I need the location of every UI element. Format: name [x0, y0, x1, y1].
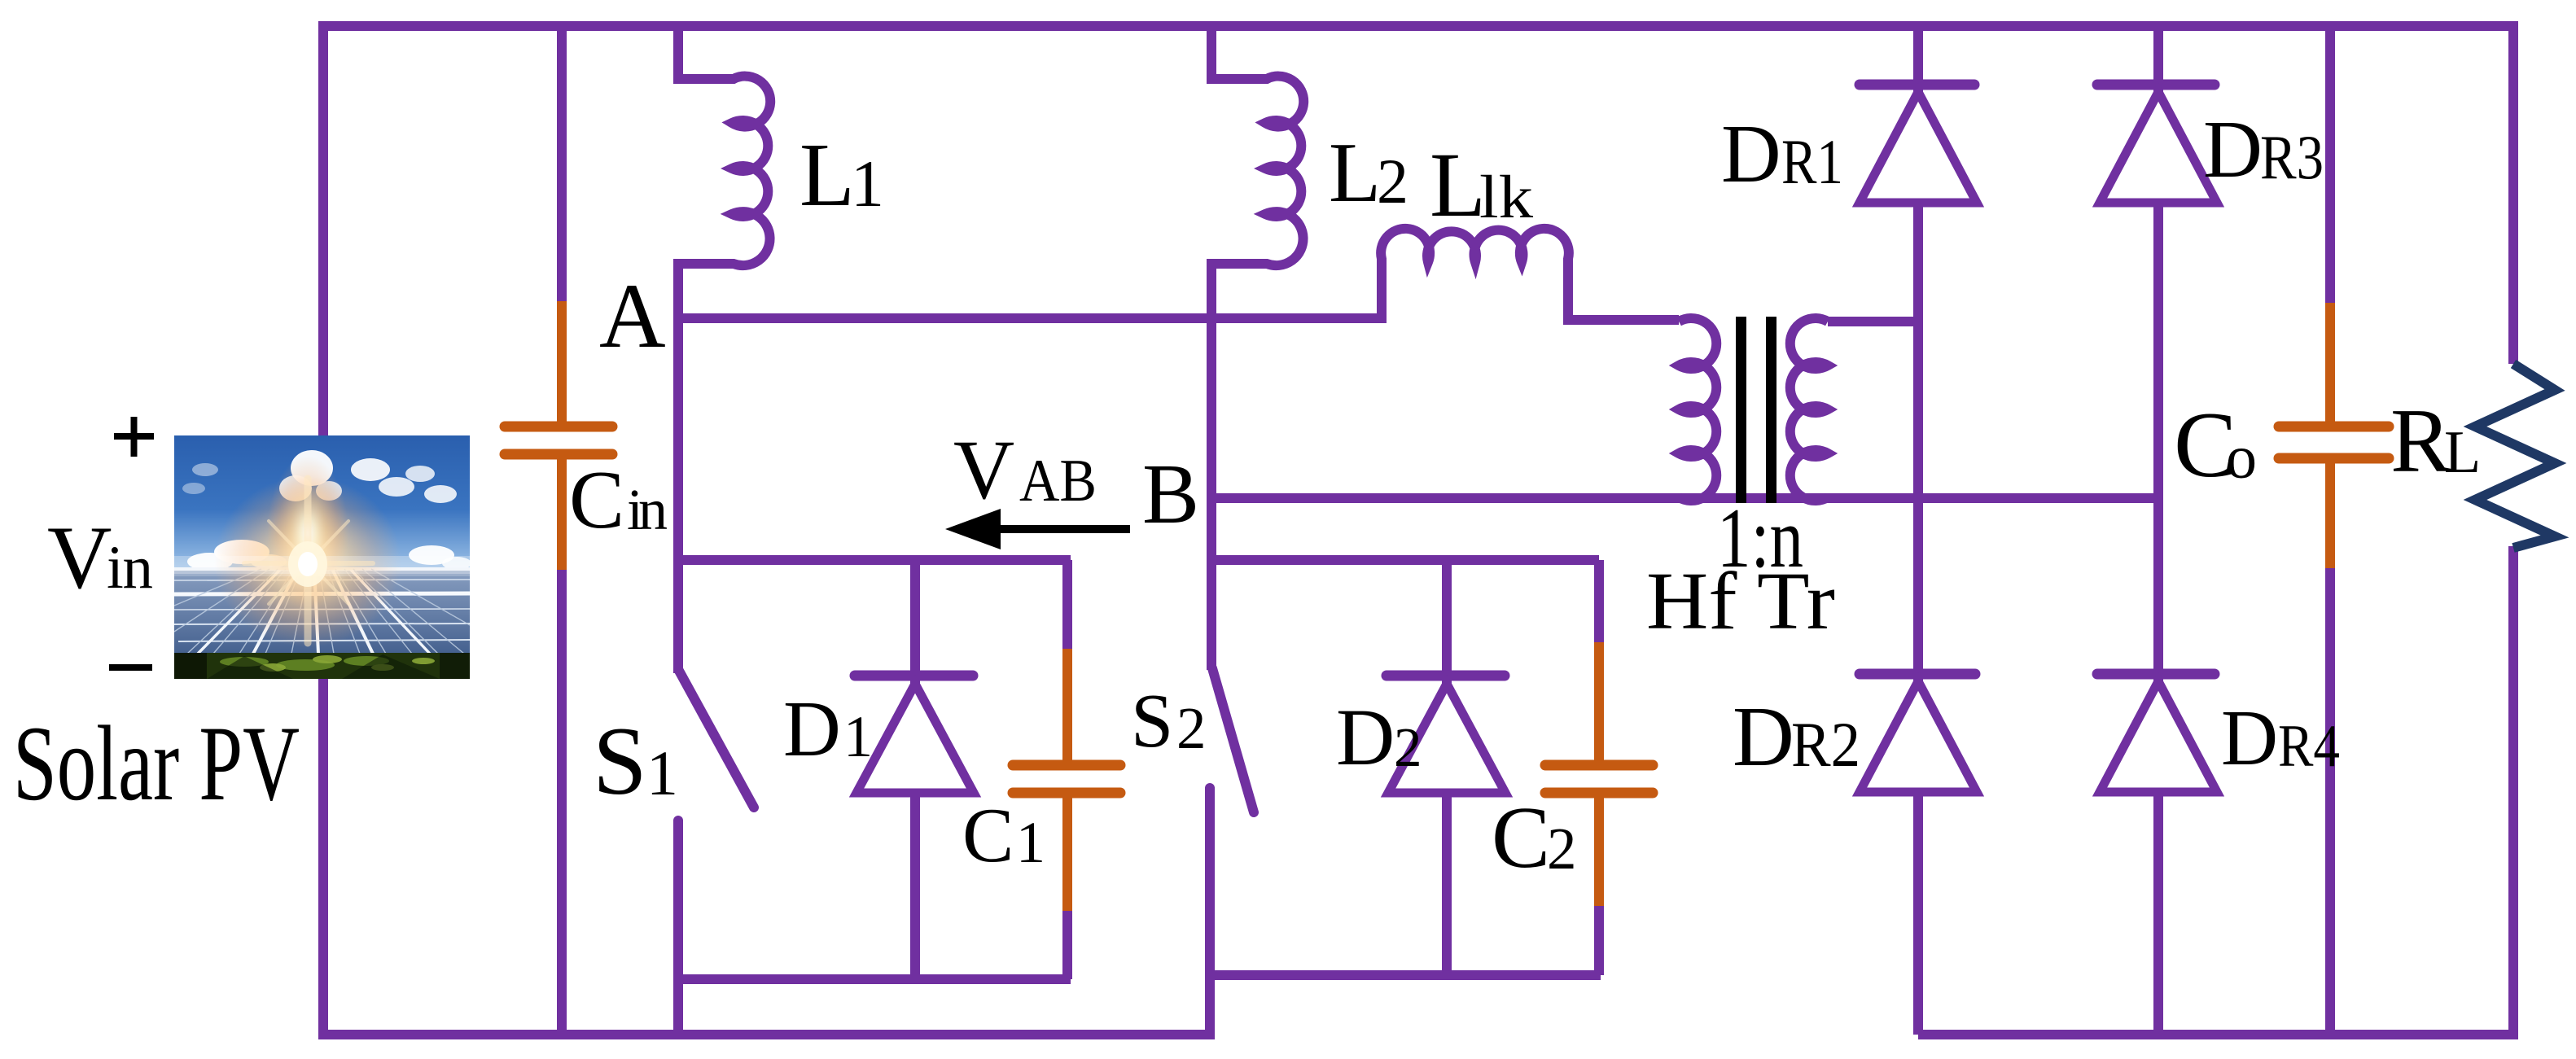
svg-text:Solar PV: Solar PV	[13, 703, 300, 823]
svg-text:1: 1	[646, 737, 678, 808]
svg-text:L: L	[800, 125, 855, 225]
svg-text:2: 2	[1377, 146, 1408, 217]
svg-text:D: D	[1733, 689, 1794, 784]
svg-text:D: D	[1336, 692, 1395, 782]
svg-text:L: L	[1329, 125, 1381, 220]
svg-text:in: in	[107, 534, 153, 602]
svg-text:1: 1	[851, 147, 884, 221]
svg-text:L: L	[2444, 419, 2481, 486]
svg-text:B: B	[1142, 446, 1199, 541]
svg-text:R1: R1	[1781, 126, 1843, 197]
svg-text:S: S	[1131, 679, 1173, 764]
svg-text:2: 2	[1176, 695, 1207, 761]
svg-text:1: 1	[843, 704, 873, 769]
svg-text:C: C	[1492, 790, 1550, 886]
svg-text:1: 1	[1016, 810, 1045, 875]
svg-text:D: D	[2203, 103, 2263, 195]
svg-text:C: C	[962, 792, 1014, 878]
svg-text:D: D	[1721, 108, 1781, 200]
svg-text:2: 2	[1547, 816, 1577, 882]
svg-text:in: in	[627, 477, 668, 542]
svg-text:lk: lk	[1479, 164, 1534, 231]
svg-text:S: S	[593, 707, 647, 815]
svg-text:A: A	[599, 265, 666, 367]
svg-text:o: o	[2226, 423, 2257, 492]
svg-text:Hf Tr: Hf Tr	[1646, 555, 1835, 646]
svg-text:R4: R4	[2278, 713, 2340, 780]
svg-text:V: V	[953, 423, 1014, 517]
svg-text:V: V	[47, 508, 112, 607]
svg-text:C: C	[569, 454, 624, 546]
svg-text:AB: AB	[1019, 448, 1097, 514]
svg-text:L: L	[1430, 134, 1486, 236]
svg-text:R3: R3	[2260, 122, 2324, 192]
svg-text:R: R	[2390, 391, 2451, 492]
svg-text:R2: R2	[1791, 709, 1860, 780]
svg-text:D: D	[2221, 694, 2278, 781]
svg-text:2: 2	[1394, 716, 1422, 778]
svg-text:D: D	[783, 685, 841, 773]
